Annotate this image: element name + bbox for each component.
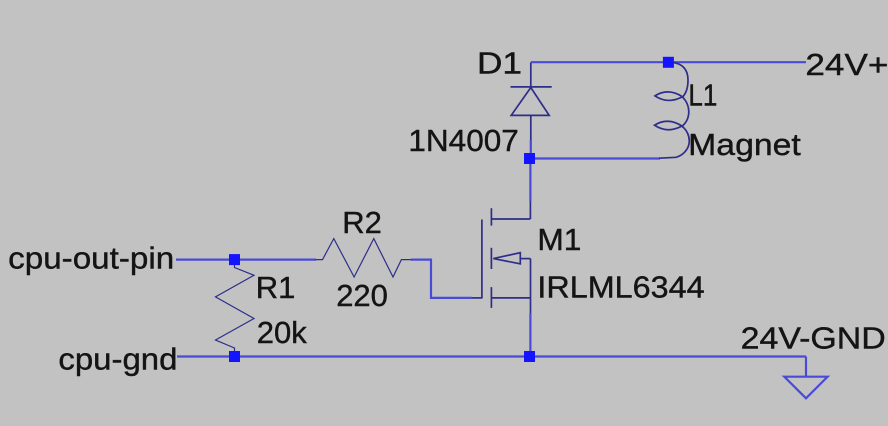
- svg-text:cpu-gnd: cpu-gnd: [58, 341, 177, 376]
- svg-text:24V-GND: 24V-GND: [741, 321, 886, 356]
- svg-text:Magnet: Magnet: [688, 127, 801, 162]
- svg-text:24V+: 24V+: [805, 47, 888, 82]
- svg-text:220: 220: [336, 278, 388, 313]
- svg-text:cpu-out-pin: cpu-out-pin: [8, 240, 174, 275]
- svg-text:M1: M1: [537, 222, 581, 257]
- svg-text:D1: D1: [477, 46, 522, 81]
- svg-text:IRLML6344: IRLML6344: [537, 270, 704, 305]
- svg-text:L1: L1: [688, 78, 717, 113]
- svg-text:20k: 20k: [257, 315, 307, 350]
- svg-text:R1: R1: [256, 270, 296, 305]
- svg-text:1N4007: 1N4007: [408, 123, 518, 158]
- svg-text:R2: R2: [342, 205, 382, 240]
